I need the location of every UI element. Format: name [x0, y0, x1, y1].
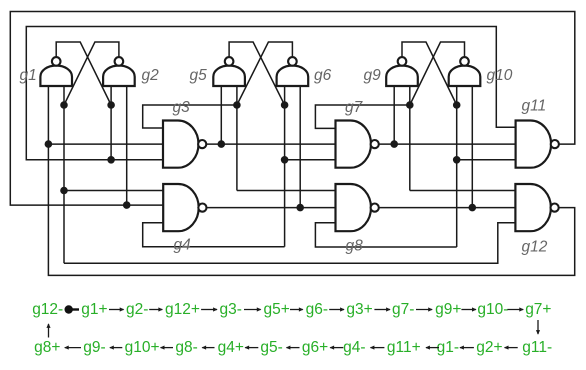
junction dot g2.out/g1.right [60, 101, 68, 109]
svg-text:g9+: g9+ [435, 301, 461, 318]
wire net g4.out to g8.in2 [207, 207, 336, 209]
arrow g7+ down to g11- [537, 320, 539, 334]
wire y=190.5 segment to g12.in1 [410, 190, 516, 192]
wire y=159.8 segment to g11.in3 [457, 159, 516, 161]
svg-text:g5-: g5- [260, 339, 282, 356]
wire g1.right input vertical down to bottom rail [63, 86, 65, 263]
junction dot g4.in1 tap [60, 187, 68, 195]
svg-text:g5: g5 [190, 67, 208, 84]
wire net g2.out: stub up, over, diagonal to g1.right; down to y=263 rail; to g12.in3 [64, 42, 119, 105]
svg-text:g3-: g3- [220, 301, 242, 318]
arrow g8- to g10+ [161, 347, 173, 349]
wire net g8.out to g12.in2 [379, 207, 516, 209]
svg-text:g10+: g10+ [125, 339, 160, 356]
nand gate g8 [336, 184, 379, 231]
nand gate g4 [163, 184, 206, 231]
svg-text:g3: g3 [173, 99, 191, 116]
svg-text:g11: g11 [522, 98, 547, 115]
junction dot g9.out/g10.left [453, 101, 461, 109]
wire bend to g7.in1 [315, 105, 409, 128]
arrow g4- to g6+ [330, 347, 343, 349]
sequence row 1 [32, 301, 551, 318]
arrow g9+ to g10- [461, 309, 476, 311]
svg-text:g6: g6 [314, 67, 332, 84]
svg-text:g10: g10 [487, 67, 513, 84]
svg-text:g8-: g8- [175, 339, 197, 356]
svg-text:g3+: g3+ [346, 301, 372, 318]
wire g2.right input vertical (joins g11.out line) [126, 86, 128, 205]
svg-text:g8+: g8+ [34, 339, 60, 356]
svg-text:g12+: g12+ [165, 301, 200, 318]
nand gate g6 [277, 57, 309, 86]
nand gate g3 [163, 121, 206, 168]
wire g2.left input vertical [110, 86, 112, 160]
wire net g11.out: output of g11 right, up right side, across top, down left side, to g4.in2 [10, 12, 575, 206]
nand gate g10 [449, 57, 481, 86]
wire g10.right input vertical [471, 86, 473, 208]
wire net g3.out to g7.in2 [206, 143, 335, 145]
wire g9.left input vertical [393, 86, 395, 144]
arrow g9- to g8+ [65, 347, 81, 349]
svg-text:g7-: g7- [392, 301, 414, 318]
wire y=159.8 segment to g7.in3 [285, 159, 336, 161]
arrow g12+ to g3- [201, 309, 217, 311]
marker tail [72, 308, 79, 310]
wire y=263.3 rail to g12.in3 [64, 223, 516, 264]
nand gate g11 [516, 121, 559, 168]
arrow g3+ to g7- [374, 309, 390, 311]
wire g10.left input vertical [456, 86, 458, 247]
svg-text:g12-: g12- [32, 301, 63, 318]
nand gate g2 [103, 57, 135, 86]
wire net g5.out: stub, over, diagonal to g6.left; down; to g7.in3 and g4.in3 [229, 42, 285, 105]
arrow g10- to g7+ [507, 309, 523, 311]
arrow g2+ to g1- [460, 347, 474, 349]
svg-text:g9: g9 [364, 67, 382, 84]
wire net g6.out: stub, over, diagonal to g5.right; to g3.in1 and g8.in1 [237, 42, 293, 105]
junction dot g5.out/g6.left [281, 101, 289, 109]
arrow g10+ to g9- [110, 347, 122, 349]
junction dot g2.right on g11.out line [123, 201, 131, 209]
arrow g11- to g2+ [505, 347, 518, 349]
svg-text:g4-: g4- [343, 339, 365, 356]
wire net g12.out: right, down, along bottom, up to g1.left [48, 86, 574, 275]
nand gate g9 [386, 57, 418, 86]
svg-text:g2: g2 [142, 67, 160, 84]
svg-text:g12: g12 [522, 239, 548, 256]
junction dot g7.in3 tap [281, 156, 289, 164]
wire net g9.out: stub, over, diagonal to g10.left; to g11.in3 and g8.in3 [402, 42, 457, 105]
arrow g6+ to g5- [287, 347, 300, 349]
arrow g2- to g12+ [149, 309, 162, 311]
wire y=247 segment to g8.in3 [315, 223, 456, 247]
wire g9.right input vertical [409, 86, 411, 191]
junction dot g10.right on g8.out [469, 204, 477, 212]
arrow g1- to g11+ [426, 347, 439, 349]
sequence row 2 [34, 339, 552, 356]
junction dot g6.out/g5.right [233, 101, 241, 109]
svg-text:g4+: g4+ [218, 339, 244, 356]
svg-text:g8: g8 [346, 238, 364, 255]
arrow g8+ up to g12- [48, 324, 50, 338]
junction dot g11.in3 tap [453, 156, 461, 164]
junction dot g3.in3 tap [107, 156, 115, 164]
wire net g10.out: stub, over, diagonal to g9.right; to g7.in1 and g12.in1 [410, 42, 465, 105]
nand gate g7 [336, 121, 379, 168]
svg-text:g2+: g2+ [476, 339, 502, 356]
wire y=190.5 segment to g8.in1 [237, 190, 336, 192]
junction dot g10.out/g9.right [406, 101, 414, 109]
svg-text:g9-: g9- [83, 339, 105, 356]
svg-text:g2-: g2- [126, 301, 148, 318]
arrow g5+ to g6- [290, 309, 303, 311]
svg-text:g11+: g11+ [387, 339, 421, 356]
wire g5.left input vertical [220, 86, 222, 144]
svg-text:g6+: g6+ [302, 339, 328, 356]
wire y=144.1 segment to g3.in2 [48, 143, 163, 145]
wire g6.right input vertical [299, 86, 301, 208]
junction dot g6.right on g4.out [296, 204, 304, 212]
svg-text:g1: g1 [20, 67, 37, 84]
wire second-loop: y=159.8 rail to g3.in3, up left side, across top, down to g11.in1 [26, 27, 516, 160]
junction dot g1.out/g2.left [107, 101, 115, 109]
svg-text:g10-: g10- [477, 301, 508, 318]
junction dot g9.left on g7.out [390, 140, 398, 148]
arrow g1+ to g2- [109, 309, 124, 311]
nand gate g12 [515, 184, 558, 231]
junction dot g3.in2 tap on g1.left [45, 140, 53, 148]
svg-text:g11-: g11- [522, 339, 552, 356]
wire bend to g3.in1 [143, 105, 237, 128]
svg-text:g5+: g5+ [264, 301, 290, 318]
wire g6.left input vertical [284, 86, 286, 247]
svg-text:g7: g7 [345, 99, 364, 116]
nand gate g5 [213, 57, 245, 86]
wire y=246.8 segment to g4.in3 [143, 223, 285, 247]
current-position marker dot [65, 305, 73, 313]
arrow g6- to g3+ [329, 309, 344, 311]
wire net g1.out: stub up, over, diagonal to g2.left; left rail to g3.in3; big loop to g11.in1 [56, 42, 111, 105]
junction dot g5.left on g3.out [218, 140, 226, 148]
arrow g4+ to g8- [202, 347, 214, 349]
wire net g7.out to g11.in2 [379, 143, 516, 145]
arrow g7- to g9+ [416, 309, 432, 311]
wire g5.right input vertical [236, 86, 238, 191]
svg-text:g1+: g1+ [81, 301, 107, 318]
nand gate g1 [40, 57, 72, 86]
svg-text:g1-: g1- [437, 339, 459, 356]
arrow g3- to g5+ [244, 309, 261, 311]
wire y=190.5 segment to g4.in1 [64, 190, 163, 192]
svg-text:g7+: g7+ [525, 301, 551, 318]
arrow g11+ to g4- [371, 347, 385, 349]
svg-text:g4: g4 [174, 237, 192, 254]
arrow g5- to g4+ [245, 347, 258, 349]
svg-text:g6-: g6- [306, 301, 328, 318]
